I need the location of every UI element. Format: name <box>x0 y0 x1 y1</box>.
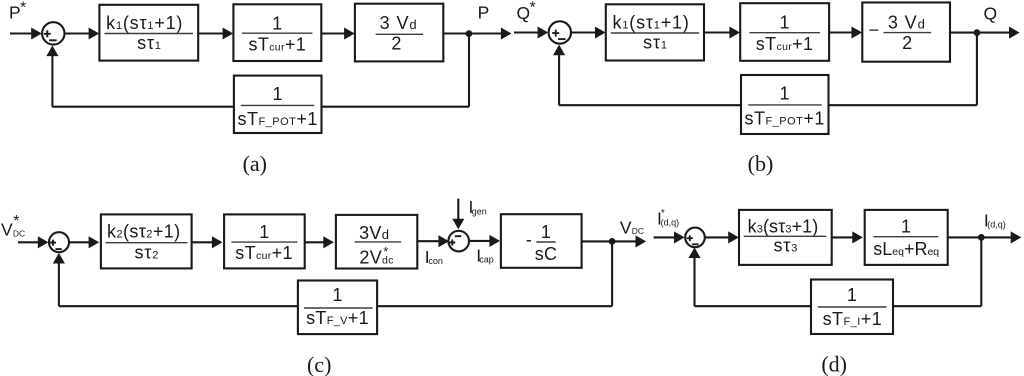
svg-text:1: 1 <box>780 83 790 103</box>
wire: summer to block k3 (d) <box>705 236 730 238</box>
wire: k1 block to current-loop block (a) <box>198 32 224 34</box>
node: output pick-off dot (a) <box>466 30 473 37</box>
wire: input arrow into summer (d) <box>654 236 676 238</box>
wire: k2 block to current block (c) <box>192 241 214 243</box>
svg-text:(a): (a) <box>243 151 267 176</box>
svg-text:P: P <box>478 3 490 23</box>
wire: feedback vertical down from node (a) <box>468 34 470 107</box>
wire: feedback vertical up into summer (a) <box>51 55 53 106</box>
svg-text:*: * <box>383 244 388 259</box>
svg-text:1: 1 <box>273 84 283 104</box>
svg-text:V: V <box>1 220 13 240</box>
svg-text:1: 1 <box>901 217 911 237</box>
wire: current block to gain block (b) <box>829 31 853 33</box>
svg-text:*: * <box>13 213 19 230</box>
svg-text:2: 2 <box>391 34 401 54</box>
summing junction 2 (c) <box>448 231 469 252</box>
wire: input arrow into summer 1 (c) <box>18 241 39 243</box>
svg-text:1: 1 <box>259 222 269 242</box>
wire: input arrow into summer (b) <box>514 31 539 33</box>
block feedback 1/(sT_F_I+1) (d) <box>811 280 893 335</box>
block 1/(sTcur+1) (b) <box>740 3 829 61</box>
wire: feedback vertical up into summer (d) <box>693 257 695 307</box>
wire: feedback horizontal right segment (c) <box>377 305 612 307</box>
wire: summer 2 to integrator block (c) <box>469 240 491 242</box>
wire: feedback horizontal right segment (b) <box>829 104 977 106</box>
svg-text:Q: Q <box>984 3 998 23</box>
wire: feedback vertical up into summer 1 (c) <box>58 262 60 306</box>
block feedback 1/(sT_F_POT+1) (b) <box>741 75 829 134</box>
block 3Vd/2Vdc* (c) <box>336 215 417 269</box>
wire: feedback horizontal right segment (d) <box>893 305 981 307</box>
wire: feedback vertical down from node (d) <box>980 237 982 306</box>
svg-text:*: * <box>530 0 536 17</box>
block k1(st1+1)/st1 (b) <box>606 4 704 60</box>
wire: feedback horizontal left segment (b) <box>559 104 741 106</box>
svg-text:1: 1 <box>272 13 282 33</box>
svg-text:(d): (d) <box>821 352 847 376</box>
svg-text:1: 1 <box>847 285 857 305</box>
svg-text:P: P <box>9 3 21 23</box>
wire: feedback vertical down from node (c) <box>611 241 613 306</box>
block -3Vd/2 (b) <box>862 3 950 62</box>
summing junction (a) <box>42 22 64 44</box>
wire: output line with arrow, P (a) <box>443 32 502 34</box>
wire: summer to block k1 (b) <box>571 31 597 33</box>
wire: output line with arrow, Q (b) <box>950 32 1011 34</box>
wire: k3 block to plant block (d) <box>832 236 854 238</box>
wire: output line with arrow, VDC (c) <box>582 240 638 242</box>
summing junction 1 (c) <box>49 232 69 252</box>
summing junction (d) <box>685 228 705 248</box>
svg-text:con: con <box>428 256 443 266</box>
block k2(st2+1)/st2 (c) <box>101 214 192 268</box>
svg-text:(c): (c) <box>307 352 331 376</box>
wire: gain block to summer 2 (c) <box>417 240 440 242</box>
block k1(st1+1)/st1 (a) <box>99 5 198 61</box>
block 1/(sTcur+1) (c) <box>224 214 305 268</box>
block 1/(sTcur+1) (a) <box>233 4 321 61</box>
wire: current block to gain block (c) <box>305 241 325 243</box>
svg-text:gen: gen <box>472 206 487 216</box>
node: output pick-off dot (b) <box>974 29 981 36</box>
wire: output line with arrow, I(d,q) (d) <box>948 236 1013 238</box>
svg-text:1: 1 <box>541 222 551 242</box>
wire: feedback horizontal right segment (a) <box>322 106 470 108</box>
svg-text:1: 1 <box>779 13 789 33</box>
wire: input arrow into summer (a) <box>10 32 33 34</box>
wire: feedback horizontal left segment (a) <box>52 106 234 108</box>
svg-text:V: V <box>620 217 632 237</box>
block k3(st3+1)/st3 (d) <box>739 210 832 265</box>
svg-text:(d,q): (d,q) <box>661 217 680 227</box>
wire: feedback vertical up into summer (b) <box>558 54 560 105</box>
block 1/(sLeq+Req) (d) <box>865 210 948 265</box>
block feedback 1/(sT_F_POT+1) (a) <box>234 76 322 133</box>
wire: summer to block k1 (a) <box>64 32 90 34</box>
svg-text:DC: DC <box>632 226 644 236</box>
node: output pick-off dot (d) <box>978 234 985 241</box>
node: output pick-off dot (c) <box>609 238 616 245</box>
wire: summer to block k2 (c) <box>69 241 91 243</box>
svg-text:2: 2 <box>902 33 912 53</box>
svg-text:(b): (b) <box>748 151 774 176</box>
svg-text:1: 1 <box>332 285 342 305</box>
svg-text:cap: cap <box>479 255 494 265</box>
wire: feedback vertical down from node (b) <box>976 33 978 106</box>
wire: current block to gain block (a) <box>321 32 345 34</box>
svg-text:sC: sC <box>535 244 558 264</box>
block 3Vd/2 (a) <box>355 4 443 62</box>
block -1/sC (c) <box>501 214 582 268</box>
svg-text:-: - <box>526 230 532 250</box>
svg-text:*: * <box>20 0 26 17</box>
svg-text:Q: Q <box>517 3 531 23</box>
node Igen input arrow from top (c) <box>457 199 459 220</box>
svg-text:(d,q): (d,q) <box>987 219 1006 229</box>
wire: feedback horizontal left segment (d) <box>695 305 812 307</box>
svg-text:−: − <box>869 20 880 40</box>
summing junction (b) <box>549 21 571 43</box>
wire: feedback horizontal left segment (c) <box>59 305 298 307</box>
wire: k1 block to current-loop block (b) <box>704 31 731 33</box>
block feedback 1/(sT_F_V+1) (c) <box>298 281 377 335</box>
